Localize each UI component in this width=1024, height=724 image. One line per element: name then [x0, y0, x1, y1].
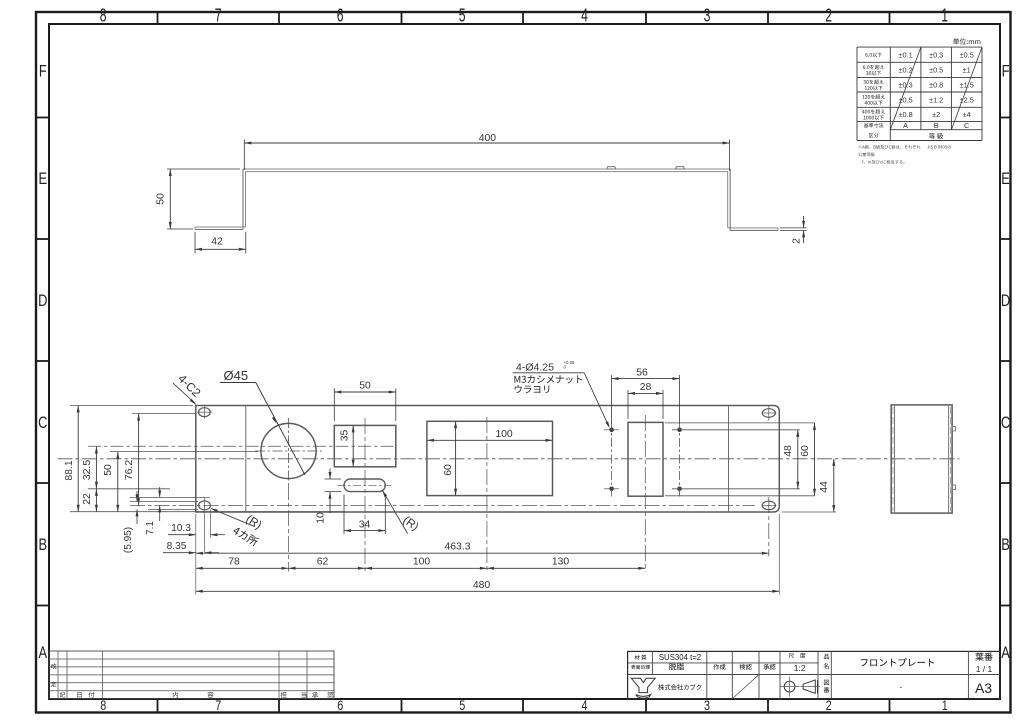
rectangle 50x35	[334, 425, 396, 466]
dim 50 (left)	[117, 452, 119, 512]
svg-text:463.3: 463.3	[444, 542, 470, 553]
dim 88.1	[77, 406, 79, 512]
svg-text:Ø45: Ø45	[224, 368, 249, 383]
title block grid	[628, 651, 1000, 698]
dim 50 ext lines (rect)	[333, 389, 335, 422]
dim 56 ext lines	[611, 375, 613, 424]
slot rounded	[344, 479, 385, 492]
right slotted hole bottom	[762, 501, 775, 510]
svg-text:±0.5: ±0.5	[960, 50, 974, 59]
dim 42 extension lines	[194, 232, 196, 254]
circle centerline extension down	[288, 484, 290, 572]
svg-text:C: C	[1001, 415, 1011, 433]
svg-text:6: 6	[337, 698, 343, 713]
svg-text:B: B	[39, 537, 48, 555]
svg-text:B: B	[1001, 537, 1010, 555]
top view: top surface sheet (double line)	[243, 168, 730, 170]
horizontal centerline	[58, 458, 960, 460]
svg-text:48: 48	[783, 445, 794, 457]
svg-text:±1: ±1	[963, 66, 971, 75]
dim 8.35	[163, 552, 196, 554]
right slotted hole top	[762, 409, 775, 418]
small ext lines near bottom-left hole	[130, 496, 210, 498]
rivet holes vertical centerlines	[611, 422, 613, 498]
svg-text:±0.2: ±0.2	[899, 66, 913, 75]
front view plate outline	[196, 406, 780, 513]
svg-text:±0.1: ±0.1	[899, 50, 913, 59]
svg-text:8: 8	[100, 698, 106, 713]
svg-text:8.35: 8.35	[167, 541, 187, 552]
dim 35 (rect)	[352, 425, 354, 466]
svg-text:88.1: 88.1	[64, 460, 75, 480]
svg-text:76.2: 76.2	[124, 460, 135, 480]
dim 44	[833, 459, 835, 512]
svg-text:5: 5	[459, 698, 465, 713]
dim 2 extension lines	[780, 227, 807, 229]
svg-text:10: 10	[316, 512, 327, 524]
rect 100x60 vertical centerline	[486, 417, 488, 572]
hole bottom-left	[199, 501, 211, 510]
svg-text:2: 2	[792, 238, 803, 244]
dim 32.5	[95, 447, 97, 489]
svg-text:±4: ±4	[963, 110, 971, 119]
dim 2 (thickness)	[803, 216, 805, 228]
side view rivet tab bottom	[952, 485, 955, 489]
svg-text:±2: ±2	[932, 110, 940, 119]
title block diagonal (検認 empty)	[733, 675, 758, 698]
dim 100 (bottom)	[365, 567, 487, 569]
svg-text:10.3: 10.3	[171, 523, 191, 534]
rect/slot vertical centerline	[364, 418, 366, 572]
tolerance table texts	[865, 53, 882, 57]
top view: right foot	[728, 227, 778, 229]
dim 60 (inside rect)	[455, 421, 457, 495]
svg-text:2: 2	[826, 698, 832, 713]
svg-text:100: 100	[495, 429, 513, 440]
tolerance table grid	[857, 46, 982, 48]
svg-text:8: 8	[100, 6, 107, 26]
svg-text:F: F	[39, 63, 47, 81]
dim 28 ext lines	[627, 390, 629, 419]
top view: right leg	[729, 169, 731, 230]
dim 78	[196, 567, 289, 569]
third angle projection symbol	[784, 681, 795, 692]
side view right inner line	[948, 405, 950, 513]
svg-text:±0.5: ±0.5	[899, 95, 913, 104]
svg-text:50: 50	[359, 381, 371, 392]
circle Ø45	[261, 423, 316, 478]
svg-text:28: 28	[640, 382, 652, 393]
svg-text:60: 60	[443, 464, 454, 476]
svg-text:7: 7	[215, 698, 221, 713]
dim (5.95)	[136, 491, 138, 501]
dim 130	[487, 567, 645, 569]
svg-text:±0.3: ±0.3	[929, 50, 943, 59]
right bend line	[728, 406, 730, 513]
dim 32.5 ext line top	[88, 445, 397, 447]
svg-text:A: A	[903, 121, 908, 130]
title block texts	[635, 655, 647, 660]
svg-text:400: 400	[479, 133, 497, 144]
rectangle 28 (rivet area)	[628, 422, 663, 496]
svg-text:±0.3: ±0.3	[899, 80, 913, 89]
svg-text:A: A	[1001, 645, 1010, 663]
dim 50 extension lines (top view)	[167, 168, 240, 170]
dim 56	[612, 378, 680, 380]
dim 10 ext lines	[325, 478, 342, 480]
svg-text:35: 35	[340, 430, 351, 442]
dim 48 (right)	[797, 430, 799, 489]
dim 50 (top view)	[169, 169, 171, 229]
svg-text:7: 7	[215, 6, 222, 26]
svg-text:A3: A3	[975, 680, 992, 696]
tolerance table notes	[859, 145, 921, 149]
dim 50 ext line top (left)	[110, 451, 258, 453]
rivet nut bump 2 (top view)	[675, 167, 684, 169]
dim 480	[196, 590, 780, 592]
dim 50 (rect)	[334, 391, 396, 393]
hole top-left (4-C2)	[199, 408, 211, 417]
side view rivet tab top	[952, 427, 955, 431]
svg-text:±0.8: ±0.8	[929, 80, 943, 89]
grid column ticks	[157, 12, 159, 24]
dim 10.3	[168, 534, 196, 536]
svg-text:±2.5: ±2.5	[960, 95, 974, 104]
svg-text:6: 6	[337, 6, 344, 26]
svg-text:78: 78	[228, 557, 240, 568]
dim 10 (slot height)	[329, 469, 331, 480]
svg-text:34: 34	[359, 520, 371, 531]
dim 60 ext lines (right)	[665, 422, 815, 424]
kabuku logo	[631, 678, 655, 698]
revision table texts	[51, 663, 56, 669]
dim 76.2 ext line top	[132, 413, 196, 415]
rivet holes row extension lines to right	[672, 429, 800, 431]
dim 22	[95, 489, 97, 512]
bottom slotted hole centerline down	[768, 497, 770, 557]
svg-text:3: 3	[704, 6, 711, 26]
svg-text:±1.5: ±1.5	[960, 80, 974, 89]
svg-text:4: 4	[581, 6, 588, 26]
dim 76.2	[138, 414, 140, 506]
svg-text:-: -	[900, 683, 903, 692]
revision table grid	[49, 651, 334, 699]
svg-text:±1.2: ±1.2	[929, 95, 943, 104]
svg-text:2: 2	[825, 6, 832, 26]
svg-text:5: 5	[459, 6, 466, 26]
svg-text:(5.95): (5.95)	[123, 527, 134, 553]
svg-text:4: 4	[581, 698, 587, 713]
svg-text:±0.5: ±0.5	[929, 66, 943, 75]
svg-text:7.1: 7.1	[145, 521, 156, 535]
dim 28	[628, 392, 663, 394]
svg-text:44: 44	[819, 481, 830, 493]
svg-text:F: F	[1002, 63, 1010, 81]
svg-text:D: D	[1001, 293, 1010, 311]
dim 60 (right)	[814, 423, 816, 496]
rivet holes horizontal ticks (left pair)	[604, 429, 619, 431]
svg-text:A: A	[39, 645, 48, 663]
plate bottom edge ext to right	[782, 511, 836, 513]
svg-text:4-Ø4.25: 4-Ø4.25	[516, 361, 554, 373]
top view: left foot	[195, 226, 246, 228]
dim 100 (inside rect)	[427, 439, 553, 441]
dim 400	[244, 142, 729, 144]
svg-text:1 / 1: 1 / 1	[976, 664, 993, 674]
svg-text:C: C	[964, 121, 969, 130]
dim 400 extension lines	[243, 140, 245, 171]
svg-text:130: 130	[552, 557, 570, 568]
ext verticals below hole	[209, 510, 211, 538]
svg-text:B: B	[934, 121, 939, 130]
tolerance table title 単位:mm	[953, 38, 980, 44]
svg-text:42: 42	[211, 237, 223, 248]
svg-text:32.5: 32.5	[82, 460, 93, 480]
dim 22 ext line	[88, 488, 170, 490]
dim 62	[289, 567, 366, 569]
svg-text:SUS304 t=2: SUS304 t=2	[659, 653, 701, 662]
svg-text:480: 480	[473, 580, 491, 591]
leader R 4カ所	[211, 508, 254, 526]
rectangle 100x60	[427, 421, 553, 495]
svg-text:D: D	[38, 293, 47, 311]
bottom holes centerline	[130, 504, 755, 506]
dim 463.3	[196, 552, 769, 554]
leader (R) slot	[382, 490, 407, 533]
svg-text:1: 1	[942, 698, 948, 713]
svg-text:1:2: 1:2	[794, 663, 806, 673]
ext verticals bottom	[195, 514, 197, 595]
svg-text:3: 3	[704, 698, 710, 713]
svg-text:1: 1	[941, 6, 948, 26]
rivet nut bump 1 (top view)	[607, 167, 616, 169]
svg-text:±0.8: ±0.8	[899, 110, 913, 119]
svg-text:C: C	[38, 415, 48, 433]
dim 88.1 ext lines	[70, 405, 193, 407]
svg-text:60: 60	[800, 445, 811, 457]
dim 34 ext lines	[343, 495, 345, 535]
grid row ticks	[36, 117, 49, 119]
svg-text:62: 62	[317, 557, 329, 568]
side view left bend dashline	[892, 407, 894, 511]
svg-text:22: 22	[82, 493, 93, 505]
side view left inner line	[894, 405, 896, 513]
dim 42	[195, 248, 246, 250]
leader to rivet hole	[584, 373, 608, 426]
svg-text:50: 50	[103, 464, 114, 476]
svg-text:100: 100	[413, 557, 431, 568]
dim 7.1	[159, 487, 161, 497]
svg-text:E: E	[39, 171, 48, 189]
svg-text:50: 50	[156, 193, 167, 205]
dim 34	[344, 530, 385, 532]
svg-text:56: 56	[636, 367, 648, 378]
28-rect vertical centerline	[644, 415, 646, 572]
side view right dashline	[949, 407, 951, 511]
left bend line	[245, 406, 247, 513]
rivet holes (4x) dots	[609, 428, 614, 433]
tolerance table diagonals	[890, 47, 921, 130]
top view: left leg	[242, 169, 244, 230]
side view outline	[891, 405, 952, 513]
svg-text:E: E	[1001, 171, 1010, 189]
